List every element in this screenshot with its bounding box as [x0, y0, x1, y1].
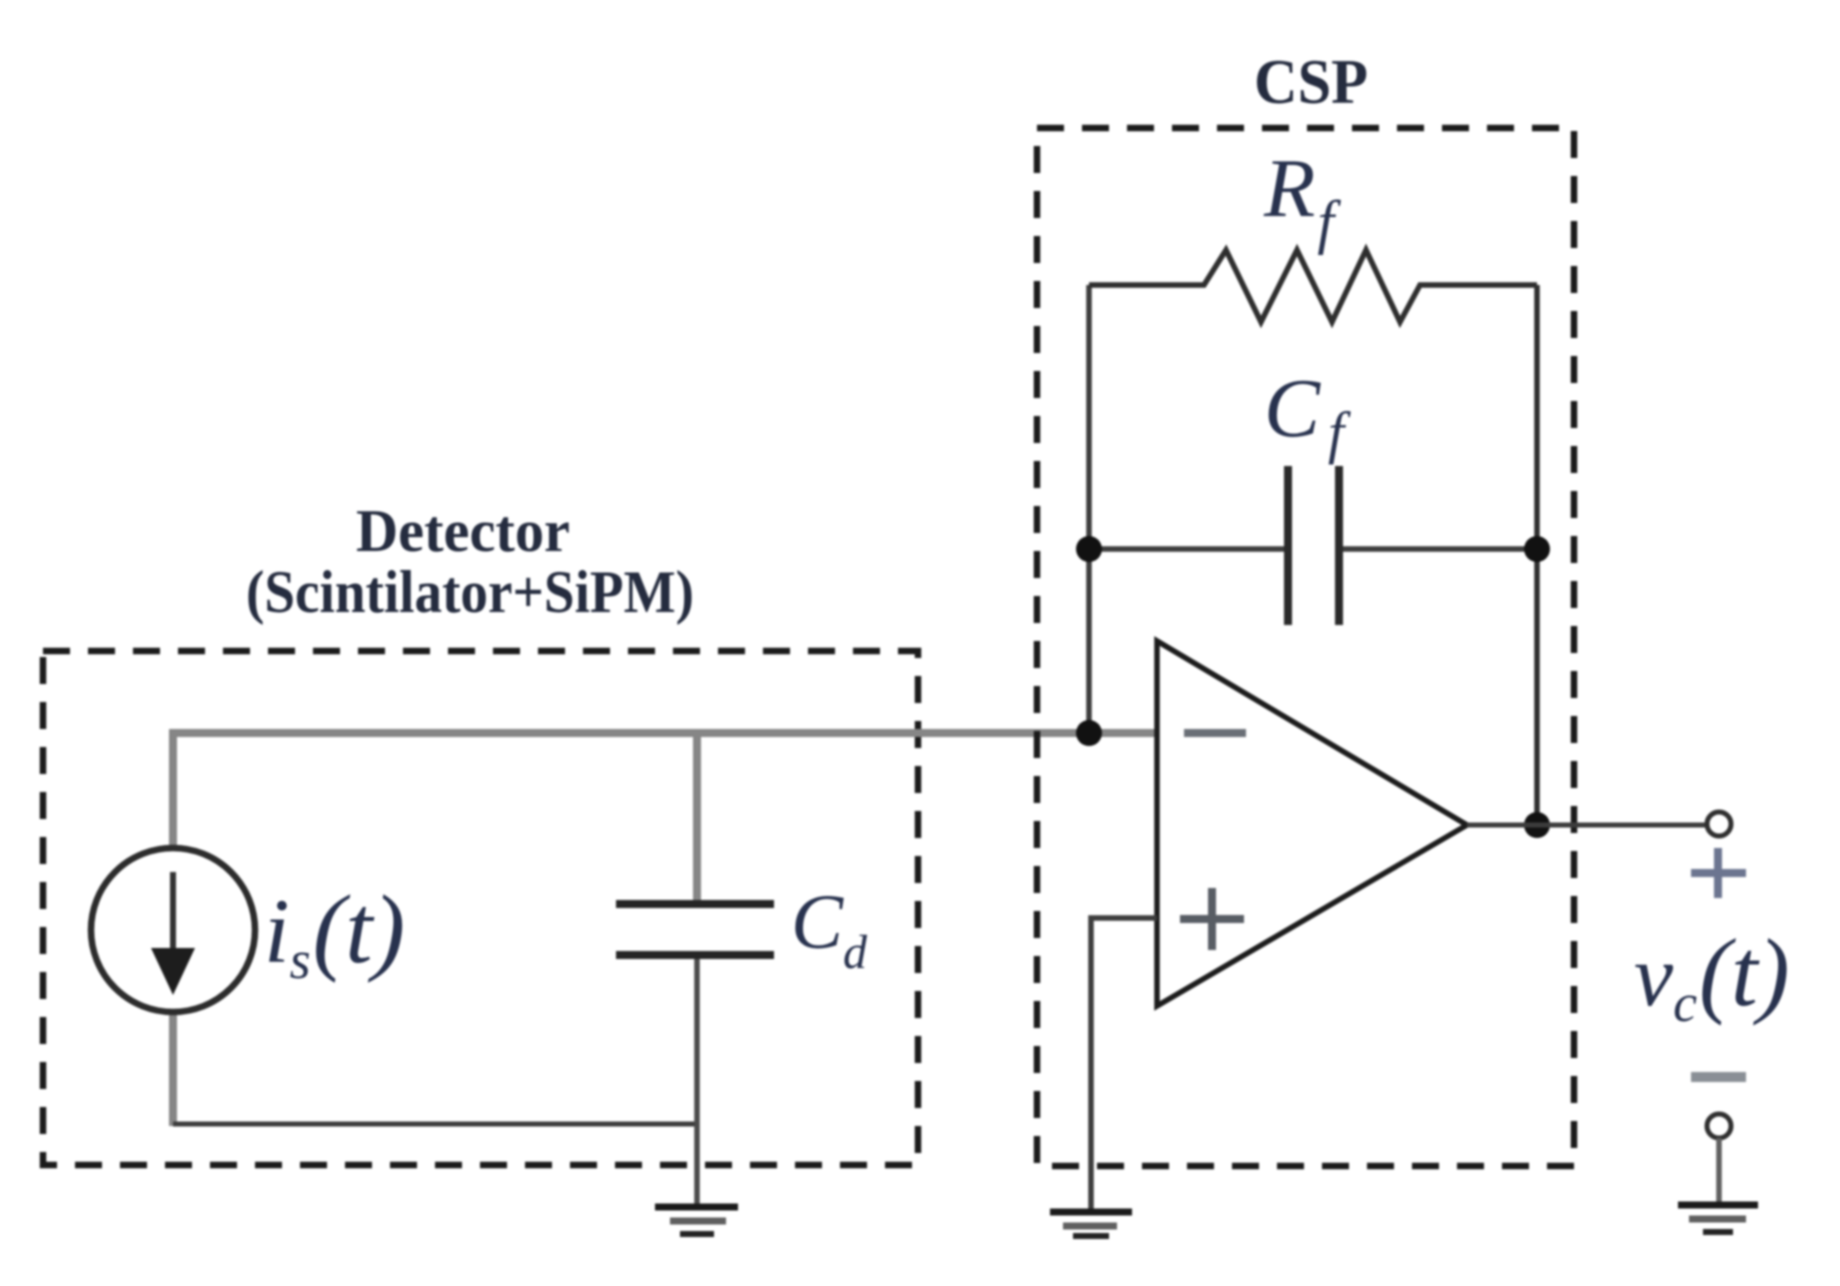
svg-text:Rf: Rf [1263, 142, 1341, 255]
wire: non-inverting input to ground [1091, 918, 1157, 1209]
op-amp plus input mark [1180, 915, 1244, 923]
svg-text:Detector: Detector [356, 498, 570, 564]
node dot: feedback left at Cf [1076, 536, 1102, 562]
output terminal lower circle [1707, 1114, 1731, 1138]
svg-text:Cf: Cf [1264, 362, 1351, 465]
wire: current source bottom lead [169, 1011, 177, 1126]
op-amp minus input mark [1184, 729, 1246, 737]
wire: Cd top connection stub [693, 733, 701, 903]
capacitor Cf [1089, 546, 1288, 552]
CSP dashed enclosure box [1037, 128, 1574, 1166]
node dot: output node [1524, 812, 1550, 838]
wire: Cd bottom lead down to ground [694, 955, 700, 1209]
resistor Rf [1089, 250, 1537, 322]
svg-text:(Scintilator+SiPM): (Scintilator+SiPM) [246, 559, 694, 625]
ground G2 below CSP [1050, 1209, 1132, 1216]
node dot: feedback right at Cf [1524, 536, 1550, 562]
node dot: inverting input node [1076, 720, 1102, 746]
svg-text:is(t): is(t) [264, 876, 405, 990]
svg-text:vc(t): vc(t) [1634, 919, 1790, 1033]
op-amp U1 triangle [1157, 641, 1467, 1006]
wire: detector top node wire to op-amp inverting input [173, 733, 1157, 849]
wire: feedback right vertical [1534, 285, 1540, 825]
output plus mark [1691, 869, 1746, 877]
output minus mark [1691, 1072, 1746, 1082]
output terminal upper circle [1707, 812, 1731, 836]
detector dashed enclosure box [43, 651, 918, 1165]
wire: detector bottom return wire [173, 1122, 697, 1127]
wire: output wire to terminal [1467, 823, 1707, 828]
ground G3 below output terminal [1678, 1202, 1758, 1209]
current source IS1 [91, 848, 255, 1012]
capacitor Cd [616, 900, 774, 908]
svg-text:CSP: CSP [1254, 46, 1368, 117]
svg-text:Cd: Cd [791, 878, 868, 979]
wire: lower terminal to ground [1716, 1138, 1722, 1203]
ground G1 below detector [655, 1204, 738, 1211]
wire: feedback left vertical [1086, 285, 1092, 733]
